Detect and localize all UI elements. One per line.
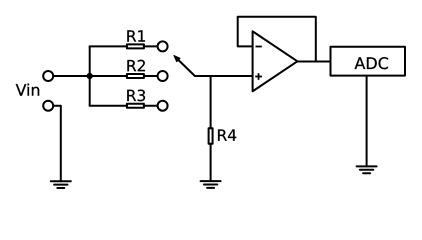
resistor R2 — [127, 74, 144, 78]
wire R4 top lead — [210, 76, 212, 128]
wire R4 bottom lead — [210, 144, 212, 181]
wire op-amp output to ADC — [297, 61, 330, 63]
wire left bus vertical — [89, 46, 91, 105]
wire Vin- to ground — [54, 106, 61, 182]
wire R2 lead left — [90, 75, 127, 77]
resistor R4 — [209, 128, 213, 144]
wire R1 lead left — [90, 45, 127, 47]
wire feedback loop — [238, 17, 316, 62]
resistor R3 — [127, 104, 144, 108]
wire ADC to ground — [366, 76, 368, 167]
ground under Vin — [51, 181, 71, 188]
node A junction dot — [87, 73, 93, 79]
label ADC — [355, 57, 388, 69]
label Vin — [16, 84, 39, 96]
block ADC box — [331, 47, 406, 76]
terminal Vin+ — [43, 71, 53, 81]
switch SW1 arrowhead — [174, 56, 180, 62]
resistor R1 — [127, 44, 144, 48]
wire switch pole to op-amp + input — [195, 75, 253, 77]
label R1 — [127, 30, 145, 41]
switch SW1 blade — [178, 60, 195, 76]
label R2 — [127, 60, 144, 71]
wire R1 lead right — [144, 45, 157, 47]
ground under R4 — [201, 181, 221, 188]
op-amp U1 minus pin mark — [256, 46, 262, 48]
op-amp U1 plus pin mark — [255, 73, 262, 80]
terminal R3 contact — [158, 101, 168, 111]
terminal Vin- — [43, 101, 53, 111]
op-amp U1 — [253, 31, 298, 91]
wire R3 lead right — [144, 105, 157, 107]
wire Vin+ to node A — [54, 75, 90, 77]
ground under ADC — [357, 166, 377, 173]
terminal R2 contact — [158, 71, 168, 81]
wire R3 lead left — [90, 105, 127, 107]
wire R2 lead right — [144, 75, 157, 77]
label R3 — [127, 90, 145, 102]
label R4 — [218, 129, 236, 140]
terminal R1 contact — [158, 41, 168, 51]
